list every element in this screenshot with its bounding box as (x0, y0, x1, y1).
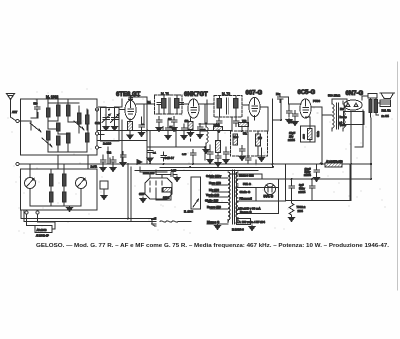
IF1 trimmer 1 (156, 117, 162, 132)
svg-text:Verde 140: Verde 140 (206, 193, 220, 197)
eye coupling cap (167, 169, 180, 182)
resistor 750 (239, 119, 249, 127)
magic eye 6E5 (145, 178, 172, 200)
osc switch 2 (76, 178, 87, 189)
wire box1 to gang (99, 99, 123, 118)
svg-text:607-G: 607-G (246, 91, 263, 97)
V4 cathode resistor (301, 117, 316, 142)
secondary wires (230, 164, 286, 201)
svg-text:M. 71: M. 71 (161, 92, 169, 96)
svg-text:2xAR: 2xAR (91, 165, 97, 169)
osc coil 4 (63, 192, 66, 202)
decoupling capacitor a (147, 131, 157, 163)
svg-text:Rosso 110: Rosso 110 (207, 205, 221, 209)
V5 grid wires down (347, 99, 351, 201)
V1 bypass capacitor (139, 117, 145, 131)
svg-text:8µF: 8µF (299, 183, 304, 187)
svg-text:0.25: 0.25 (171, 169, 177, 173)
primary taps (207, 178, 228, 224)
V4 plate wire (311, 107, 322, 115)
svg-text:±10%: ±10% (288, 138, 295, 142)
transformer left ground (215, 224, 221, 230)
cap mid band b (245, 152, 251, 164)
tube V1 6TE8GT (125, 100, 136, 119)
V2 cathode ground (188, 131, 194, 137)
svg-text:Al 1042-4P: Al 1042-4P (36, 234, 49, 238)
primary tap labels (205, 174, 222, 224)
IF transformer 2 M.72 box (214, 96, 242, 118)
IF2 primary coil (217, 96, 222, 118)
svg-text:GELOSO. — Mod. G. 77 R. – AF e: GELOSO. — Mod. G. 77 R. – AF e MF come G… (36, 243, 390, 249)
cap under 6NR7 region (207, 149, 213, 164)
power transformer primary coil (228, 172, 230, 222)
filter capacitor 8uF b (309, 179, 315, 201)
V5 socket box (344, 110, 365, 147)
top cap 607 (277, 94, 283, 103)
detector ground main (259, 156, 265, 162)
terminal box1 right 2 (96, 132, 99, 135)
speaker magnet (380, 100, 390, 107)
resistor Al 1007 (325, 159, 342, 167)
osc coil 3 (63, 170, 66, 206)
rectifier 5V4G (265, 184, 276, 195)
power switch box (191, 177, 201, 209)
svg-text:±10%: ±10% (304, 173, 311, 177)
V2 cathode resistor (188, 118, 193, 131)
decoupling capacitor b (165, 120, 171, 140)
svg-text:Bianco G: Bianco G (207, 220, 219, 224)
svg-text:Giallo 125: Giallo 125 (205, 199, 219, 203)
svg-text:500 25kΩ: 500 25kΩ (328, 94, 340, 98)
IF1 core (169, 98, 171, 114)
coil core E1 (86, 109, 89, 130)
secondary tap labels (238, 174, 260, 215)
RF coil unit box M.1982 (21, 99, 98, 155)
small box M (100, 181, 108, 200)
mains wire pair (21, 210, 156, 222)
wire antenna to coil (19, 99, 37, 121)
coupling capacitor to 6C5 (273, 99, 282, 168)
wire 6N7 plate to output (362, 96, 368, 100)
antenna coupling capacitor (34, 103, 40, 113)
AP203 box (237, 219, 251, 225)
IF2 secondary coil (234, 96, 239, 118)
IF1 secondary coil (175, 95, 184, 114)
bus line C (135, 170, 258, 172)
V1 screen wire (131, 97, 148, 101)
power transformer secondary 5V (236, 172, 238, 184)
wire top 6C5 (281, 97, 301, 104)
antenna terminal (16, 120, 19, 123)
svg-text:M. 1982: M. 1982 (46, 95, 58, 99)
wire speaker (379, 102, 381, 104)
V4 cathode bypass cap (292, 111, 298, 126)
svg-text:500v: 500v (299, 187, 305, 191)
V2 plate wire (181, 100, 215, 124)
svg-text:6NK7GT: 6NK7GT (184, 92, 208, 98)
svg-text:M 100/4-6: M 100/4-6 (232, 228, 244, 232)
V1 grid wire (99, 110, 125, 148)
filter capacitor 8uF a (289, 179, 295, 192)
speaker cone (380, 93, 394, 98)
cap on bus b (182, 150, 196, 165)
detector resistor M.70 (216, 131, 221, 155)
coil core E2 (86, 133, 89, 142)
V1 grid cap (129, 96, 141, 100)
wire box1 bottom to osc (19, 155, 88, 169)
svg-text:FILO: FILO (233, 137, 238, 139)
oscillator box (21, 169, 98, 210)
left vertical riser (128, 164, 131, 222)
padder wires (27, 214, 56, 229)
wire driver to 6C5 plate (322, 115, 332, 164)
tube V3 6Q7G (249, 97, 260, 116)
heater bus line B (110, 158, 273, 168)
V3 wires (242, 105, 268, 131)
transformer ground (249, 225, 255, 231)
svg-text:700Ω ±: 700Ω ± (297, 205, 306, 209)
fuse mark on bus (137, 160, 142, 165)
6E5 resistor (163, 188, 172, 200)
detector cap 2 (239, 146, 245, 161)
svg-text:±a 8%: ±a 8% (382, 114, 390, 118)
detector resistor 24k (214, 123, 223, 131)
IF2 core (227, 98, 229, 114)
coil core A2 (47, 131, 50, 152)
coil core B3 (57, 136, 60, 152)
cap on bus a (161, 152, 167, 161)
svg-text:N. 1063: N. 1063 (184, 210, 194, 214)
choke coil left of detector (203, 123, 209, 154)
detector wires (232, 117, 262, 156)
grid resistor 6C5 (286, 104, 292, 124)
mains plug (152, 218, 192, 227)
IF transformer 1 M.71 box (155, 95, 183, 114)
svg-text:P500: P500 (313, 99, 320, 103)
svg-text:5V4 G: 5V4 G (264, 195, 274, 199)
svg-text:0.1: 0.1 (153, 153, 157, 155)
terminal box1 right 3 (96, 146, 99, 149)
svg-text:Filamenti: Filamenti (240, 197, 253, 201)
coil core D1 (78, 106, 81, 133)
V1 cathode ground (127, 134, 133, 140)
svg-text:Radd. 6E5: Radd. 6E5 (143, 172, 155, 175)
band switch arrow 2 (74, 121, 84, 130)
screen bypass cap (181, 124, 187, 140)
tiny value labels (107, 102, 343, 164)
svg-text:Nero 250: Nero 250 (209, 181, 221, 185)
wire inside box1 horizontals (31, 103, 88, 152)
trimmer cap 1 (102, 114, 111, 131)
svg-text:15µF: 15µF (289, 131, 296, 135)
svg-text:0.05: 0.05 (182, 154, 187, 156)
volume resistor 2 (256, 134, 261, 146)
svg-text:4000: 4000 (304, 133, 306, 139)
V1 bypass ground (139, 131, 145, 137)
osc switch 1 (25, 178, 36, 189)
cap near gang bottom (120, 152, 126, 167)
osc risers (30, 164, 64, 178)
secondary label box (237, 179, 279, 214)
svg-text:Blu 160: Blu 160 (209, 188, 219, 192)
filter capacitor 16uF (314, 164, 320, 182)
trimmer cap 2 (111, 114, 120, 131)
detector dashed box (231, 131, 268, 156)
screen bus wire (97, 97, 205, 164)
svg-text:25v: 25v (289, 135, 294, 139)
coil core A1 (47, 99, 50, 129)
IF1 trimmer 2 (171, 117, 177, 132)
svg-text:500: 500 (34, 103, 39, 106)
osc terminals (25, 211, 39, 214)
padder box (35, 226, 52, 233)
speaker labels (382, 109, 391, 119)
coil core C1 (67, 99, 70, 122)
output transformer (368, 94, 379, 118)
svg-text:Blu: Blu (340, 108, 344, 111)
decoupler caps left (100, 155, 106, 172)
tube V4 6C5G (300, 99, 311, 118)
osc coil 2 (50, 192, 53, 202)
IF2 trimmer 2 (233, 118, 239, 127)
label 700 ohm (297, 205, 306, 213)
svg-text:A.P. 203 volta 4 5F 184: A.P. 203 volta 4 5F 184 (236, 220, 265, 224)
svg-text:300Ω: 300Ω (163, 196, 169, 200)
svg-text:5kΩ: 5kΩ (107, 153, 111, 155)
svg-text:P.M. 5Ω: P.M. 5Ω (382, 109, 391, 113)
svg-text:750: 750 (242, 119, 247, 123)
svg-text:±20%: ±20% (299, 190, 306, 194)
svg-text:6C5-G: 6C5-G (298, 90, 316, 96)
svg-text:±1%: ±1% (338, 162, 343, 164)
band switch arrow 1 (30, 123, 41, 132)
svg-text:6E5: 6E5 (139, 192, 145, 196)
label 16uF (304, 167, 311, 177)
vertical feeders mid (163, 105, 256, 164)
detector cap to ground (215, 153, 221, 167)
IF1 primary coil (157, 95, 166, 114)
svg-text:Giallo G: Giallo G (240, 190, 251, 194)
tube V2 6NR7GT (188, 99, 199, 118)
svg-text:24kΩ: 24kΩ (214, 123, 220, 127)
osc grid wire down (108, 120, 122, 164)
power transformer secondary HT (236, 202, 238, 220)
osc inner wires (30, 189, 81, 207)
B plus line (279, 178, 372, 180)
wire eye bus (140, 167, 167, 175)
IF2 trimmer 1 (216, 118, 222, 133)
antenna (7, 94, 16, 121)
label 15uF (288, 131, 296, 142)
svg-text:20kΩ: 20kΩ (200, 130, 206, 132)
svg-text:2x220: 2x220 (103, 142, 112, 146)
svg-text:250: 250 (258, 138, 263, 140)
decoupler caps left 2 (110, 157, 116, 172)
AVC bus wire (97, 110, 232, 131)
volume resistor 1 (233, 134, 237, 145)
osc coil 1 (50, 170, 53, 206)
ht return line (286, 164, 351, 201)
coil core C2 (67, 133, 70, 152)
junction dots (108, 96, 372, 180)
osc ground (67, 206, 73, 212)
svg-text:AP.1063: AP.1063 (37, 228, 47, 232)
svg-text:Rosso G: Rosso G (240, 210, 252, 214)
V1 plate wire (136, 104, 154, 124)
coil core B1 (57, 99, 60, 121)
tuning gang box (101, 108, 120, 142)
svg-text:M. 72: M. 72 (222, 92, 230, 96)
terminal input 2 (16, 163, 19, 166)
terminal box1 right 1 (96, 108, 99, 111)
V1 cathode resistor (128, 119, 133, 133)
svg-text:50k: 50k (243, 134, 248, 136)
svg-text:Grigio 220v: Grigio 220v (206, 174, 222, 178)
coil core B2 (57, 123, 60, 134)
power transformer core (233, 170, 235, 224)
resistor 700 ohm (289, 192, 295, 222)
V2 bypass capacitor (197, 124, 203, 139)
svg-text:ANT: ANT (12, 110, 18, 114)
wire output to B+ (370, 118, 372, 179)
cap mid band a (223, 149, 229, 164)
6E5 wires (150, 172, 171, 200)
svg-text:5V1 G: 5V1 G (243, 182, 251, 186)
svg-text:Giallo: Giallo (318, 130, 320, 137)
svg-text:6N7-G: 6N7-G (346, 91, 364, 97)
heater bus line A (19, 163, 371, 165)
power transformer secondary fil (236, 186, 238, 198)
label 6E5 (139, 192, 146, 203)
secondary box dividers (237, 188, 279, 202)
right edge scan line (397, 62, 399, 290)
driver labels (340, 108, 348, 127)
extra junction dots (127, 119, 352, 220)
label 8uF (299, 183, 306, 194)
band switch arrow 3 (42, 138, 52, 147)
tube V5 6N7G (344, 100, 362, 110)
svg-text:20%: 20% (298, 209, 304, 213)
box1 inner links (31, 113, 87, 153)
driver transformer (332, 99, 347, 131)
